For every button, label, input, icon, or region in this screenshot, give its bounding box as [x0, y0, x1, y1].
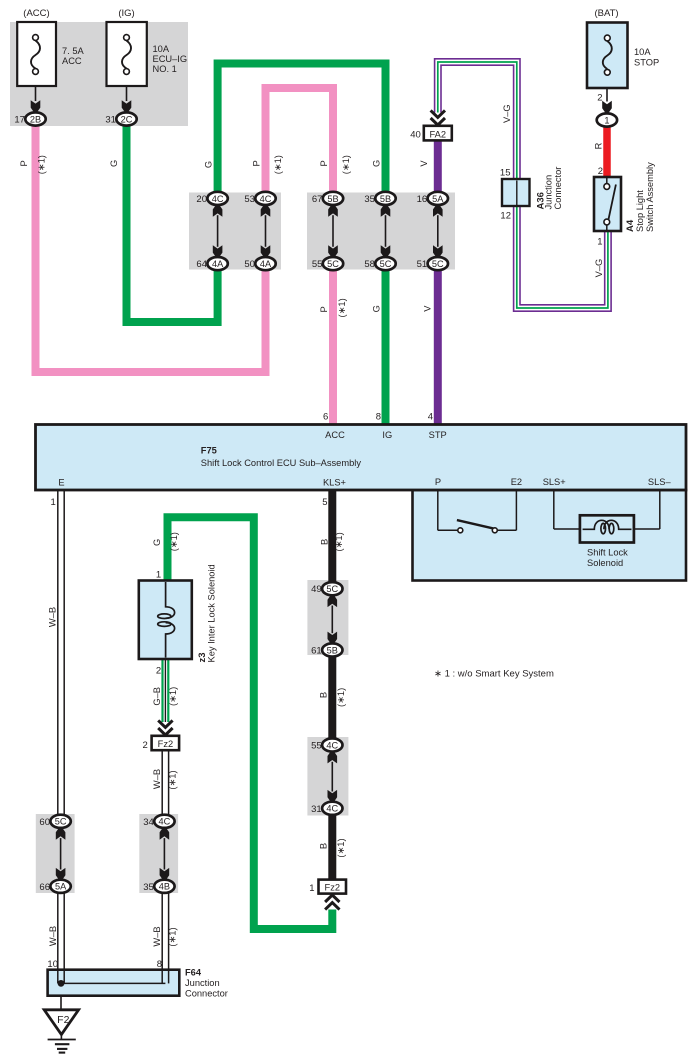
svg-text:W–B: W–B: [152, 926, 162, 946]
svg-text:58: 58: [364, 259, 375, 270]
svg-text:10: 10: [47, 959, 58, 970]
svg-text:35: 35: [143, 882, 154, 893]
svg-text:ACC: ACC: [62, 56, 82, 66]
svg-text:5B: 5B: [380, 194, 391, 204]
svg-text:Shift Lock Control ECU Sub–Ass: Shift Lock Control ECU Sub–Assembly: [201, 458, 362, 468]
svg-text:67: 67: [312, 194, 323, 205]
svg-text:KLS+: KLS+: [323, 478, 346, 488]
svg-text:5B: 5B: [327, 194, 338, 204]
svg-text:Junction: Junction: [185, 978, 220, 988]
svg-text:60: 60: [39, 817, 50, 828]
svg-text:4C: 4C: [159, 817, 171, 827]
svg-text:(∗1): (∗1): [36, 155, 46, 174]
svg-text:55: 55: [311, 741, 322, 752]
svg-text:(∗1): (∗1): [168, 927, 178, 946]
svg-text:NO. 1: NO. 1: [153, 64, 177, 74]
svg-text:G: G: [203, 161, 213, 168]
svg-text:(∗1): (∗1): [169, 532, 179, 551]
svg-text:1: 1: [156, 570, 161, 581]
svg-text:(∗1): (∗1): [168, 687, 178, 706]
svg-text:66: 66: [39, 882, 50, 893]
svg-text:61: 61: [311, 646, 322, 657]
svg-text:∗ 1 : w/o Smart Key System: ∗ 1 : w/o Smart Key System: [434, 669, 554, 680]
svg-text:W–B: W–B: [48, 926, 58, 946]
svg-text:P: P: [252, 160, 262, 166]
svg-text:B: B: [319, 843, 329, 849]
svg-text:Key Inter Lock Solenoid: Key Inter Lock Solenoid: [207, 564, 217, 662]
svg-text:2: 2: [598, 166, 603, 177]
svg-text:(BAT): (BAT): [594, 8, 618, 19]
svg-text:ECU–IG: ECU–IG: [153, 54, 188, 64]
svg-text:16: 16: [417, 194, 428, 205]
svg-text:10A: 10A: [153, 44, 170, 54]
svg-text:Stop Light: Stop Light: [635, 190, 645, 232]
svg-text:35: 35: [364, 194, 375, 205]
svg-text:(ACC): (ACC): [23, 8, 49, 19]
svg-text:Fz2: Fz2: [325, 883, 341, 893]
svg-text:F2: F2: [57, 1014, 69, 1026]
svg-text:FA2: FA2: [430, 130, 447, 140]
svg-text:F64: F64: [185, 967, 202, 977]
svg-text:49: 49: [311, 584, 322, 595]
svg-text:2C: 2C: [121, 114, 133, 124]
svg-text:W–B: W–B: [152, 769, 162, 789]
svg-text:4C: 4C: [326, 804, 338, 814]
svg-text:12: 12: [500, 211, 511, 222]
svg-text:5C: 5C: [326, 584, 338, 594]
svg-text:2B: 2B: [30, 114, 41, 124]
svg-text:Fz2: Fz2: [158, 739, 174, 749]
svg-text:V–G: V–G: [502, 104, 512, 123]
svg-text:1: 1: [597, 237, 602, 248]
svg-text:Junction: Junction: [544, 175, 554, 210]
svg-text:17: 17: [14, 115, 25, 126]
svg-text:Solenoid: Solenoid: [587, 558, 623, 568]
svg-text:IG: IG: [382, 430, 392, 440]
svg-text:5A: 5A: [432, 194, 444, 204]
svg-text:Connector: Connector: [553, 167, 563, 210]
svg-text:34: 34: [143, 817, 154, 828]
svg-text:10A: 10A: [634, 47, 651, 57]
svg-text:1: 1: [604, 115, 609, 125]
svg-text:G: G: [372, 160, 382, 167]
svg-text:8: 8: [157, 959, 162, 970]
svg-text:4C: 4C: [326, 740, 338, 750]
svg-text:5C: 5C: [380, 259, 392, 269]
svg-text:P: P: [319, 160, 329, 166]
svg-text:G: G: [152, 539, 162, 546]
svg-text:Switch Assembly: Switch Assembly: [645, 162, 655, 232]
svg-text:STOP: STOP: [634, 58, 659, 68]
svg-text:(∗1): (∗1): [334, 532, 344, 551]
svg-text:2: 2: [143, 740, 148, 751]
svg-text:(∗1): (∗1): [337, 298, 347, 317]
svg-text:E: E: [58, 478, 64, 488]
svg-text:31: 31: [105, 115, 116, 126]
svg-text:15: 15: [500, 167, 511, 178]
svg-text:1: 1: [51, 497, 56, 508]
svg-text:5C: 5C: [55, 817, 67, 827]
svg-text:4C: 4C: [212, 194, 224, 204]
svg-text:P: P: [319, 306, 329, 312]
svg-text:5B: 5B: [327, 645, 338, 655]
svg-text:6: 6: [323, 412, 328, 423]
svg-text:5: 5: [322, 497, 327, 508]
svg-text:(∗1): (∗1): [341, 155, 351, 174]
svg-text:40: 40: [410, 130, 421, 141]
svg-text:V: V: [419, 160, 429, 167]
svg-text:G: G: [371, 305, 381, 312]
svg-text:(∗1): (∗1): [336, 688, 346, 707]
svg-text:53: 53: [244, 194, 255, 205]
svg-text:2: 2: [156, 666, 161, 677]
svg-text:(∗1): (∗1): [273, 155, 283, 174]
svg-text:Connector: Connector: [185, 989, 228, 999]
svg-text:ACC: ACC: [325, 430, 345, 440]
svg-text:5A: 5A: [55, 882, 67, 892]
svg-text:5C: 5C: [432, 259, 444, 269]
svg-text:Shift Lock: Shift Lock: [587, 547, 628, 557]
svg-text:SLS+: SLS+: [543, 477, 566, 487]
svg-text:V–G: V–G: [594, 259, 604, 278]
svg-text:STP: STP: [429, 430, 447, 440]
svg-text:V: V: [423, 305, 433, 312]
svg-text:G–B: G–B: [152, 687, 162, 706]
svg-text:4A: 4A: [212, 259, 224, 269]
svg-text:4A: 4A: [260, 259, 272, 269]
svg-text:8: 8: [376, 412, 381, 423]
svg-text:64: 64: [196, 259, 207, 270]
svg-text:(∗1): (∗1): [168, 770, 178, 789]
svg-text:P: P: [435, 477, 441, 487]
svg-text:W–B: W–B: [48, 607, 58, 627]
svg-text:2: 2: [597, 93, 602, 104]
svg-text:4B: 4B: [159, 882, 170, 892]
svg-text:4: 4: [428, 412, 433, 423]
svg-text:55: 55: [312, 259, 323, 270]
svg-text:20: 20: [196, 194, 207, 205]
svg-text:7. 5A: 7. 5A: [62, 46, 85, 56]
svg-text:(IG): (IG): [118, 8, 134, 19]
svg-text:(∗1): (∗1): [336, 838, 346, 857]
svg-text:5C: 5C: [327, 259, 339, 269]
svg-text:1: 1: [309, 883, 314, 894]
svg-text:51: 51: [417, 259, 428, 270]
svg-text:4C: 4C: [260, 194, 272, 204]
svg-text:P: P: [19, 160, 29, 166]
svg-text:A4: A4: [625, 219, 636, 232]
svg-text:F75: F75: [201, 445, 217, 455]
svg-text:G: G: [109, 160, 119, 167]
svg-text:E2: E2: [511, 477, 522, 487]
svg-text:31: 31: [311, 804, 322, 815]
svg-text:B: B: [319, 692, 329, 698]
svg-text:B: B: [320, 539, 330, 545]
svg-text:SLS–: SLS–: [648, 477, 672, 487]
svg-text:R: R: [594, 142, 604, 149]
svg-text:50: 50: [244, 259, 255, 270]
